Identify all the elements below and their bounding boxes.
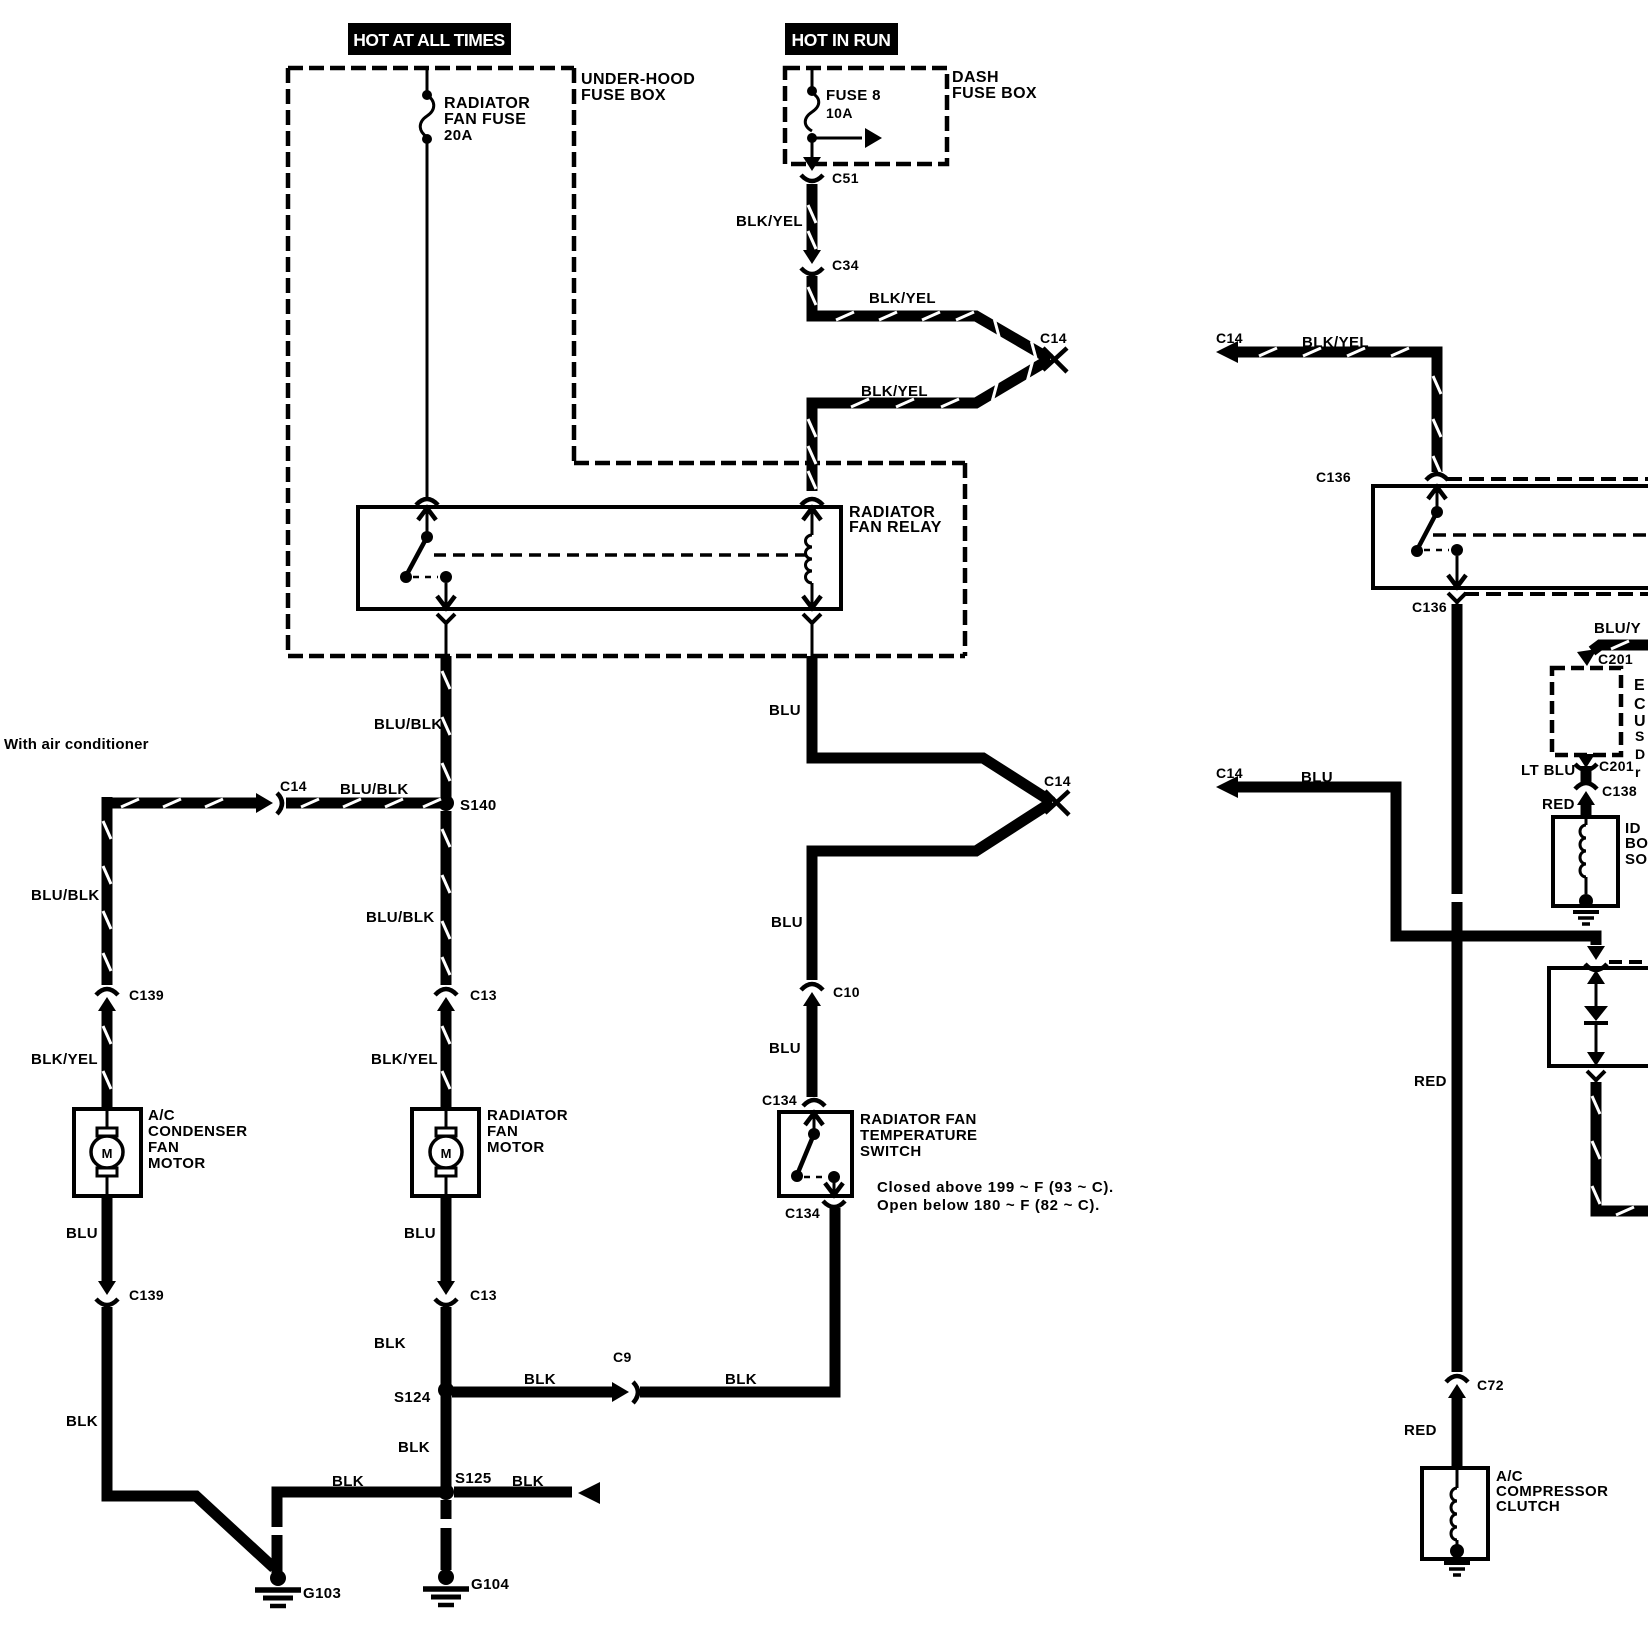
svg-text:MOTOR: MOTOR [487,1139,545,1156]
svg-text:D: D [1635,746,1646,762]
compressor clutch coil [1456,1468,1459,1488]
relay switch contact arrow [418,508,436,520]
svg-text:C34: C34 [832,257,859,273]
fuse F8 10A [807,86,817,96]
svg-text:BLU/BLK: BLU/BLK [366,909,435,926]
temp switch throw (dashed link) [804,1176,828,1179]
wire BLK/YEL C139 to condenser motor [102,1008,113,1108]
svg-text:FUSE BOX: FUSE BOX [581,87,666,104]
svg-text:20A: 20A [444,127,473,144]
svg-text:BLK: BLK [512,1473,544,1490]
svg-text:Closed above 199 ~ F (93 ~ C: Closed above 199 ~ F (93 ~ C). [877,1179,1114,1196]
svg-text:BLK/YEL: BLK/YEL [861,383,928,400]
svg-text:BLU/Y: BLU/Y [1594,620,1641,637]
radiator fan motor M2 box [412,1109,479,1196]
connector C201 (lower) [1577,754,1595,768]
svg-text:BO: BO [1625,835,1648,852]
svg-text:LT BLU: LT BLU [1521,762,1576,779]
A/C compressor clutch box [1422,1468,1488,1559]
svg-text:S125: S125 [455,1470,492,1487]
svg-text:C13: C13 [470,1287,497,1303]
connector C14 (in-line) [256,793,273,813]
idle boost solenoid box [1553,817,1618,906]
relay coil [811,509,814,535]
relay internal dashed link to coil [434,553,806,557]
svg-text:BLK: BLK [332,1473,364,1490]
svg-text:BLK/YEL: BLK/YEL [371,1051,438,1068]
svg-text:C136: C136 [1316,469,1351,485]
svg-text:C134: C134 [785,1205,820,1221]
diode output arrow [1587,1052,1605,1066]
clutch relay input arrow [1428,487,1446,499]
svg-text:FUSE 8: FUSE 8 [826,87,881,104]
wire BLU/BLK relay to S140 [441,656,452,803]
svg-text:CLUTCH: CLUTCH [1496,1498,1560,1515]
diode unit input arrow [1587,946,1605,960]
svg-text:FAN FUSE: FAN FUSE [444,111,526,128]
wire LT BLU C201 to C138 [1581,766,1592,783]
svg-text:BLU: BLU [769,1040,801,1057]
svg-text:C134: C134 [762,1092,797,1108]
relay switch throw (dashed link) [413,576,438,579]
diode input arrow [1587,970,1605,984]
wire BLK C13 to S124 [441,1307,452,1390]
temp switch input arrow [805,1113,823,1125]
temp switch lever [797,1134,814,1175]
svg-text:BLK: BLK [398,1439,430,1456]
off-page arrow (BLK to other grounds) [578,1482,600,1504]
svg-text:C139: C139 [129,987,164,1003]
wire (hatched) diode box to off-page [1596,1082,1648,1211]
svg-text:FUSE BOX: FUSE BOX [952,85,1037,102]
wire BLU relay to off-page C14 (upper run) [812,656,1052,802]
svg-text:BLU: BLU [769,702,801,719]
temp switch output arrow [833,1182,836,1195]
svg-text:C14: C14 [1044,773,1071,789]
wire BLU off-page C14 return to C10 [812,802,1052,980]
svg-text:BLU: BLU [404,1225,436,1242]
wire BLU/BLK down to C139 [102,797,113,985]
svg-text:C9: C9 [613,1349,632,1365]
svg-text:C201: C201 [1598,651,1633,667]
relay switch lever [406,537,427,576]
svg-text:BLK/YEL: BLK/YEL [1302,334,1369,351]
svg-text:S140: S140 [460,797,497,814]
svg-text:C136: C136 [1412,599,1447,615]
clutch relay output arrow [1456,556,1459,587]
svg-text:BLK/YEL: BLK/YEL [869,290,936,307]
connector C34 [803,250,821,264]
svg-text:BLK/YEL: BLK/YEL [31,1051,98,1068]
wire relay coil output (thin stub) [811,626,814,658]
power label HOT AT ALL TIMES [348,23,511,55]
compressor clutch ground [1450,1544,1464,1558]
A/C condenser fan motor M1 box [74,1109,141,1196]
off-page connector C14 (to fan circuit) [1043,348,1067,372]
wire from under-hood box top to radiator fan fuse [426,66,429,92]
svg-text:HOT IN RUN: HOT IN RUN [791,30,890,50]
diode D1 [1584,1006,1608,1021]
idle boost solenoid ground [1579,894,1593,908]
svg-text:RED: RED [1542,796,1575,813]
wire BLU/BLK S140 to C14 (horizontal) [107,798,440,809]
dash fuse box outline (dashed) [785,68,947,164]
ground G103 [270,1570,286,1586]
wire BLU/Y from off-page to ECU [1592,645,1648,651]
wire BLK S124 to S125 [441,1390,452,1492]
svg-text:BLU/BLK: BLU/BLK [340,781,409,798]
radiator fan temperature switch box [779,1112,852,1196]
clutch relay output cup [1448,593,1466,602]
svg-text:FAN RELAY: FAN RELAY [849,519,942,536]
connector C134 (upper) [803,1100,825,1106]
wire RED clutch relay to C72 [1452,604,1463,1372]
svg-text:TEMPERATURE: TEMPERATURE [860,1127,977,1144]
wire BLK/YEL C14 to C136 [1232,352,1437,472]
wire BLK/YEL C34 to off-page C14 (upper run) [812,276,1050,359]
svg-text:BLK: BLK [66,1413,98,1430]
svg-text:BLU: BLU [771,914,803,931]
power label HOT IN RUN [785,23,898,55]
under-hood fuse box outline (dashed) [288,68,965,656]
motor M1 symbol [91,1136,123,1168]
connector C51 [803,157,821,171]
wire BLK/YEL C51 to C34 [807,184,818,251]
wire BLK S125 to left ground stub [277,1492,446,1573]
relay coil input arrow [803,508,821,520]
relay switch pivot [421,531,433,543]
svg-text:RED: RED [1414,1073,1447,1090]
relay switch output arrow [445,583,448,608]
connector C139 (upper) [96,989,118,995]
svg-text:BLU/BLK: BLU/BLK [374,716,443,733]
svg-text:BLU: BLU [66,1225,98,1242]
wire fuse 8 to connector C51 [811,138,814,163]
relay switch output cup [437,614,455,623]
svg-text:C138: C138 [1602,783,1637,799]
svg-text:C14: C14 [1216,765,1243,781]
svg-text:RADIATOR: RADIATOR [487,1107,568,1124]
branch arrow to other circuits [812,137,862,140]
diode output cup [1587,1071,1605,1080]
relay coil terminal cup [801,499,823,505]
wire RED C138 to idle boost solenoid [1581,802,1592,817]
svg-text:HOT AT ALL TIMES: HOT AT ALL TIMES [353,30,504,50]
ground G104 [438,1569,454,1585]
wire BLK/YEL C13 to radiator motor [441,1008,452,1108]
svg-text:BLU: BLU [1301,769,1333,786]
wire BLU C14 to diode box [1232,787,1596,945]
clutch relay internal dashed link [1433,533,1648,537]
radiator fan fuse F1 20A [422,90,432,100]
svg-text:A/C: A/C [148,1107,175,1124]
wire relay switch output (thin stub) [445,626,448,658]
compressor clutch relay box (cut at page edge) [1373,486,1648,588]
off-page arrow C14 (BLK/YEL feed) [1216,341,1238,363]
svg-text:BLK: BLK [524,1371,556,1388]
connector C9 (in-line) [612,1382,629,1402]
svg-text:C14: C14 [280,778,307,794]
svg-text:E: E [1634,677,1645,694]
svg-text:C51: C51 [832,170,859,186]
svg-text:C13: C13 [470,987,497,1003]
wire BLU C10 to C134 [807,1003,818,1097]
svg-text:With air conditioner: With air conditioner [4,736,149,753]
wire BLK S124 to C9 [452,1387,614,1398]
svg-text:FAN: FAN [148,1139,179,1156]
connector C13 (upper) [435,989,457,995]
wire BLK S125 to off-page arrow [454,1487,572,1498]
svg-text:G103: G103 [303,1585,341,1602]
clutch relay switch pivot [1431,506,1443,518]
svg-text:DASH: DASH [952,69,999,86]
wire into fuse 8 [811,66,814,90]
wire break in RED wire [1449,894,1465,902]
splice S140 [438,795,454,811]
svg-text:MOTOR: MOTOR [148,1155,206,1172]
motor M2 symbol [430,1136,462,1168]
svg-text:CONDENSER: CONDENSER [148,1123,247,1140]
wire BLU/BLK S140 to C13 [441,811,452,985]
svg-text:M: M [102,1146,113,1161]
wire from fuse to radiator fan relay [426,141,429,498]
connector C136 (upper) [1426,474,1448,480]
relay coil output cup [803,614,821,623]
diode unit box (cut at page edge) [1549,968,1648,1066]
svg-text:C139: C139 [129,1287,164,1303]
splice S124 [438,1382,454,1398]
compressor clutch relay dashed cover (upper) [1447,477,1648,481]
svg-text:C14: C14 [1040,330,1067,346]
splice S125 [438,1484,454,1500]
compressor clutch relay dashed cover (lower) [1464,592,1648,596]
motor M1 leads [106,1109,109,1196]
svg-text:BLK: BLK [374,1335,406,1352]
svg-text:S: S [1635,728,1645,744]
svg-text:SWITCH: SWITCH [860,1143,922,1160]
junction under fuse 8 [807,133,817,143]
relay coil output arrow [811,583,814,608]
wire BLU radiator motor to C13 [441,1196,452,1283]
clutch relay switch throw (dashed link) [1424,549,1449,552]
svg-text:C: C [1634,696,1646,713]
svg-text:BLK: BLK [725,1371,757,1388]
connector C13 (lower) [437,1281,455,1295]
svg-text:G104: G104 [471,1576,510,1593]
svg-text:r: r [1635,764,1641,780]
svg-text:UNDER-HOOD: UNDER-HOOD [581,71,695,88]
svg-text:C14: C14 [1216,330,1243,346]
connector C139 (lower) [98,1281,116,1295]
svg-text:RADIATOR: RADIATOR [444,95,530,112]
svg-text:C10: C10 [833,984,860,1000]
svg-text:BLK/YEL: BLK/YEL [736,213,803,230]
svg-text:BLU/BLK: BLU/BLK [31,887,100,904]
wire break above G104 [438,1519,454,1528]
wire break in ground stub [269,1527,285,1535]
wire BLU condenser motor to C139 [102,1196,113,1283]
connector C10 [801,984,823,990]
svg-text:M: M [441,1146,452,1161]
wire BLK/YEL off-page C14 return to relay (lower run) [812,359,1050,491]
svg-text:FAN: FAN [487,1123,518,1140]
radiator fan relay box [358,507,841,609]
wire BLK S125 to G104 [441,1500,452,1570]
ECU input arrow (C201) [1577,649,1597,666]
svg-text:RADIATOR FAN: RADIATOR FAN [860,1111,977,1128]
svg-text:RED: RED [1404,1422,1437,1439]
svg-text:SO: SO [1625,851,1647,868]
wire RED C72 to compressor clutch [1452,1395,1463,1468]
connector C72 [1446,1376,1468,1382]
ECU box (dashed) [1552,668,1621,755]
clutch relay switch lever [1417,512,1437,550]
off-page arrow C14 (BLU feed) [1216,776,1238,798]
svg-text:C72: C72 [1477,1377,1504,1393]
diode unit dashed cover [1609,960,1648,964]
motor M2 leads [445,1109,448,1196]
svg-text:S124: S124 [394,1389,431,1406]
svg-text:10A: 10A [826,105,853,121]
svg-text:C201: C201 [1599,758,1634,774]
wire BLK C9 to temperature switch [640,1208,835,1392]
connector C138 [1575,783,1597,789]
relay terminal (switch input) cup [416,499,438,505]
off-page connector C14 (to condenser circuit) [1045,791,1069,815]
temp switch pivot [808,1128,820,1140]
idle boost solenoid coil [1585,817,1588,825]
svg-text:Open below 180 ~ F (82 ~ C).: Open below 180 ~ F (82 ~ C). [877,1197,1100,1214]
connector C134 (lower) cup [823,1201,845,1207]
wire BLK C139 to ground run [107,1307,274,1568]
